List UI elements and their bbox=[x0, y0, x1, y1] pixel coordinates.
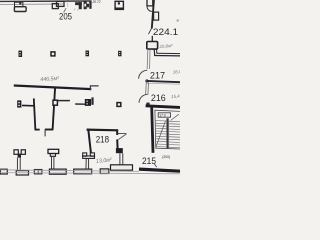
hall column row1 c3 (8) bbox=[86, 51, 90, 57]
background paper bbox=[0, 0, 180, 180]
leftmost I-column dark neck bbox=[18, 154, 21, 158]
stem from 224.1 to column box bbox=[151, 36, 153, 42]
left partition foot bbox=[35, 129, 40, 131]
left T-column bar bbox=[48, 149, 59, 153]
column P3 cluster on top wall bbox=[75, 1, 92, 9]
small box on bottom wall far left bbox=[0, 169, 7, 174]
leader for 205 bbox=[64, 8, 67, 12]
svg-text:218: 218 bbox=[96, 133, 109, 144]
column P2 step on top wall bbox=[52, 1, 64, 8]
stem below black column bbox=[119, 153, 121, 165]
leader for 215 bbox=[154, 164, 156, 167]
svg-text:20,8м²: 20,8м² bbox=[158, 43, 173, 49]
room 218 left wall bbox=[88, 130, 91, 153]
hall south wall bbox=[14, 86, 92, 90]
U-box at top right bbox=[147, 0, 153, 6]
hall column row2 c1 (8) bbox=[17, 100, 21, 107]
left T-column neck bbox=[50, 154, 55, 157]
door swing hook bbox=[147, 6, 152, 11]
room 218 door lintel bbox=[118, 133, 127, 135]
stairwell inner top line bbox=[155, 110, 180, 111]
stair treads left flight bbox=[156, 121, 167, 147]
partition wall vertical x~53 bbox=[53, 88, 56, 130]
svg-text:18,0: 18,0 bbox=[173, 69, 180, 75]
base plinth of that column bbox=[111, 165, 133, 170]
small box pair on bottom wall x~38 bbox=[34, 170, 42, 174]
svg-text:216: 216 bbox=[151, 92, 166, 103]
bottom wall gray line lower bbox=[0, 173, 180, 174]
left T-column base bbox=[49, 169, 66, 174]
leader for 224.1 bbox=[148, 26, 152, 34]
svg-text:217: 217 bbox=[150, 70, 165, 81]
leftmost I-column base bbox=[16, 171, 28, 175]
svg-text:(200): (200) bbox=[162, 155, 170, 159]
stair diagonal top right bbox=[171, 114, 179, 120]
free column square (x~119) bbox=[117, 103, 121, 107]
stair treads right flight bbox=[169, 121, 180, 147]
stairwell label box bbox=[158, 113, 170, 117]
stairwell top thick wall bbox=[146, 106, 180, 108]
216 left wall gray double bbox=[145, 82, 148, 95]
svg-text:20.72: 20.72 bbox=[92, 0, 101, 4]
room 218 top wall bbox=[87, 129, 118, 132]
column box junction bbox=[147, 42, 158, 50]
left T-column stem bbox=[51, 156, 53, 169]
217 bottom wall band bbox=[147, 81, 180, 82]
room 218 right wall lower bbox=[116, 139, 118, 148]
hall column row1 c1 (8) bbox=[19, 51, 23, 57]
landing line at stair bottom bbox=[156, 147, 180, 150]
faint marks right of 205 bbox=[74, 8, 76, 10]
stairwell left thick wall bbox=[152, 107, 153, 153]
217 door arc bbox=[139, 70, 148, 79]
column P1 boot on top wall bbox=[14, 2, 26, 11]
base of that T-column bbox=[74, 169, 92, 174]
216 door arc bbox=[139, 94, 147, 102]
stair direction diagonal left flight bbox=[156, 121, 166, 148]
top wall dark line bbox=[0, 0, 92, 2]
room 218 right wall upper bbox=[116, 129, 118, 135]
south wall step up corner bbox=[90, 86, 98, 90]
stem of that T-column bbox=[85, 158, 87, 169]
wall from node to right bbox=[58, 100, 70, 102]
stub wall from 8-column to left partition bbox=[22, 104, 34, 106]
T-column under 218 left wall: shoulder squares bbox=[83, 153, 95, 159]
black column at 218 right bottom bbox=[116, 148, 123, 153]
wall 217 top double line bbox=[153, 49, 156, 56]
svg-text:и: и bbox=[177, 18, 179, 22]
svg-text:17.0: 17.0 bbox=[159, 113, 165, 117]
svg-text:15,4: 15,4 bbox=[171, 94, 180, 100]
bottom wall gray line upper bbox=[0, 170, 139, 172]
column P4 square at top bbox=[115, 1, 123, 9]
room 218 door leaf diagonal bbox=[118, 134, 126, 140]
svg-text:224.1: 224.1 bbox=[153, 26, 178, 37]
left partition wall vertical x~34 bbox=[34, 98, 36, 130]
partition foot right-bottom bbox=[45, 129, 54, 131]
door leaf pocket rect bbox=[154, 12, 159, 20]
leftmost I-column twin squares bbox=[14, 150, 25, 155]
leftmost I-column stem bbox=[16, 158, 18, 171]
node square on partition bbox=[53, 100, 57, 105]
main right vertical wall top bbox=[152, 0, 154, 29]
wall bar right of black column bbox=[91, 97, 93, 104]
door hinge post 216 bbox=[146, 103, 149, 106]
stair central divider bbox=[167, 118, 169, 148]
faint tick near P2 bbox=[67, 0, 69, 1]
stairwell inner left line bbox=[154, 110, 157, 149]
door leaf below bbox=[44, 130, 46, 137]
hall column row1 c4 (8) bbox=[118, 51, 121, 57]
small box on bottom wall x~104 bbox=[100, 169, 109, 174]
hall column row1 c2 square bbox=[51, 52, 55, 56]
svg-text:215: 215 bbox=[142, 155, 156, 166]
wall segment after door gap bbox=[75, 103, 85, 105]
bottom wall thick dark band right bbox=[139, 169, 180, 171]
top wall gray line bbox=[0, 3, 63, 6]
svg-text:205: 205 bbox=[59, 11, 72, 22]
black column mid (x~87) bbox=[85, 99, 91, 106]
left wall gray double (above 217 door) bbox=[146, 49, 149, 69]
